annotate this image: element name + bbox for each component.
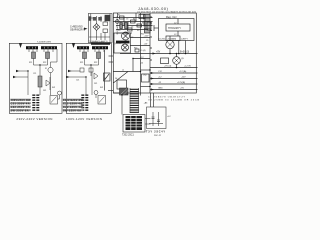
svg-text:ZD: ZD [118, 30, 121, 32]
svg-text:Q1 2SC: Q1 2SC [158, 39, 166, 41]
svg-text:C9: C9 [146, 40, 148, 42]
svg-text:+12V(B): +12V(B) [177, 82, 185, 84]
svg-text:C5: C5 [131, 26, 133, 28]
svg-text:+L2.5V: +L2.5V [184, 65, 192, 67]
svg-text:SW 125V 6A: SW 125V 6A [63, 110, 81, 113]
svg-text:R22: R22 [94, 62, 97, 64]
svg-text:2SC 4Y: 2SC 4Y [154, 135, 162, 137]
svg-text:R1: R1 [118, 15, 120, 17]
svg-text:R4: R4 [133, 19, 135, 21]
svg-text:JA48-030-00): JA48-030-00) [138, 7, 168, 11]
svg-text:Reg. Circ: Reg. Circ [166, 15, 178, 19]
svg-text:R21: R21 [29, 62, 32, 64]
svg-text:C+REDYBO: C+REDYBO [70, 27, 83, 29]
svg-text:D21: D21 [43, 90, 46, 92]
svg-text:+5 2A(M): +5 2A(M) [167, 38, 176, 41]
svg-text:-12V: -12V [181, 76, 186, 78]
svg-text:B+5V (3): B+5V (3) [180, 52, 189, 54]
svg-text:-12: -12 [140, 62, 144, 64]
svg-text:100V-120V VERSION: 100V-120V VERSION [66, 117, 102, 121]
svg-text:+12 (A): +12 (A) [179, 70, 187, 73]
svg-text:SW 250V 6A: SW 250V 6A [11, 110, 29, 113]
svg-text:+5 (4): +5 (4) [140, 50, 146, 52]
svg-text:T202 25C1: T202 25C1 [122, 134, 134, 137]
svg-text:+A6: +A6 [144, 102, 149, 105]
svg-text:SW: SW [52, 87, 55, 89]
svg-text:+5V: +5V [144, 44, 148, 46]
svg-text:L1: L1 [122, 70, 124, 72]
svg-text:CN2: CN2 [143, 75, 147, 77]
svg-text:230V-240V VERSION: 230V-240V VERSION [16, 117, 52, 121]
svg-text:R21: R21 [80, 62, 83, 64]
svg-text:Q5: Q5 [181, 58, 185, 60]
svg-text:D6: D6 [115, 78, 117, 80]
svg-text:+5V: +5V [156, 52, 161, 54]
svg-text:T-20309 DWG: T-20309 DWG [37, 42, 51, 44]
svg-text:+12: +12 [158, 76, 162, 78]
svg-text:HY8JL38YY: HY8JL38YY [168, 27, 181, 30]
svg-text:+L2: +L2 [167, 116, 171, 118]
svg-text:C7: C7 [131, 37, 133, 39]
svg-text:POWER SUPPLY B: POWER SUPPLY B [115, 16, 117, 35]
svg-text:SW: SW [100, 87, 103, 89]
svg-text:R22: R22 [43, 62, 46, 64]
svg-text:R13: R13 [134, 48, 137, 50]
svg-text:Q3: Q3 [125, 33, 127, 35]
svg-text:GND: GND [158, 87, 163, 89]
svg-text:F1: F1 [45, 68, 47, 70]
svg-text:C3: C3 [126, 19, 128, 21]
svg-text:R11: R11 [141, 33, 144, 35]
svg-text:+5V (4): +5V (4) [164, 65, 172, 67]
svg-text:-12: -12 [158, 82, 162, 84]
svg-text:R9: R9 [137, 30, 139, 32]
svg-text:L2BYY: L2BYY [181, 39, 188, 41]
svg-text:Cr 2SB678 OBJECT2Y: Cr 2SB678 OBJECT2Y [148, 95, 186, 98]
svg-text:F1: F1 [104, 78, 106, 80]
svg-text:C21: C21 [76, 80, 79, 82]
svg-text:Q2 2SC: Q2 2SC [114, 43, 122, 45]
svg-text:O2 25MB 30 25CMB OR 25CB: O2 25MB 30 25CMB OR 25CB [148, 100, 200, 102]
svg-text:T-20310 DWG: T-20310 DWG [90, 42, 104, 44]
svg-text:T3Y 2SC4Y: T3Y 2SC4Y [146, 130, 165, 133]
svg-text:C21: C21 [33, 73, 36, 75]
svg-text:+5V: +5V [180, 87, 184, 89]
svg-text:C12: C12 [158, 71, 163, 73]
svg-text:D21: D21 [94, 83, 97, 85]
svg-text:+12V: +12V [144, 36, 150, 38]
svg-text:R7: R7 [142, 22, 144, 24]
svg-text:GEAR-BCRYB: GEAR-BCRYB [70, 29, 86, 32]
svg-text:D1: D1 [120, 24, 122, 26]
